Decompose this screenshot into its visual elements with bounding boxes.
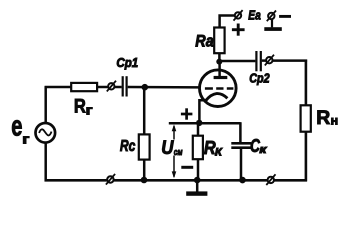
wire cathode rail	[169, 122, 241, 125]
resistor Rг	[71, 83, 97, 91]
wire cathode rail corner to Ck	[239, 122, 242, 143]
svg-text:г: г	[22, 131, 30, 146]
svg-text:U: U	[161, 137, 174, 159]
terminal Ea minus	[268, 13, 274, 19]
minus sign cathode	[181, 166, 193, 169]
plus sign cathode	[181, 113, 193, 116]
plus sign Ea	[232, 28, 245, 31]
triode cathode arc	[206, 94, 228, 101]
wire anode node to Cp2	[219, 60, 255, 63]
wire Ra top to Ea plus terminal	[220, 16, 235, 28]
triode U1 envelope	[200, 70, 237, 107]
terminal Ea plus	[235, 12, 241, 18]
terminal input bottom	[107, 176, 113, 182]
triode grid dashes	[205, 87, 213, 90]
node Rk bottom junction	[194, 177, 201, 184]
node anode junction	[216, 59, 222, 65]
node Ck bottom junction	[239, 177, 246, 184]
wire Ck bottom	[240, 148, 243, 181]
svg-text:Cp2: Cp2	[249, 71, 269, 86]
wire output top to right corner	[273, 59, 307, 62]
svg-text:Ea: Ea	[248, 8, 260, 23]
capacitor Cp1	[122, 76, 124, 96]
wire Ra bottom to anode node	[218, 53, 221, 64]
sine symbol inside eg	[39, 129, 51, 135]
wire right vertical bottom	[305, 132, 308, 182]
arrow Ucm measurement	[173, 126, 175, 139]
node Rc bottom junction	[141, 177, 148, 184]
svg-text:г: г	[86, 103, 93, 117]
svg-text:н: н	[331, 113, 339, 127]
minus sign Ea	[279, 15, 291, 18]
wire right vertical top	[305, 60, 308, 106]
resistor Rc	[139, 134, 150, 159]
generator eg	[36, 123, 56, 143]
wire input top rail	[45, 86, 72, 89]
svg-text:R: R	[74, 96, 86, 118]
terminal output top	[266, 57, 272, 63]
capacitor Ck	[231, 142, 251, 145]
wire grid node down to Rc	[143, 87, 146, 135]
resistor Ra	[214, 28, 224, 54]
terminal output bottom	[268, 177, 274, 183]
triode anode plate	[214, 76, 228, 79]
terminal input top	[108, 83, 114, 89]
svg-text:Cp1: Cp1	[116, 55, 138, 70]
wire generator bottom	[44, 142, 47, 181]
wire Rc to bottom rail	[143, 160, 146, 181]
svg-text:Ra: Ra	[195, 32, 213, 50]
resistor Rн	[301, 105, 311, 131]
triode anode lead	[218, 61, 221, 78]
wire Rk bottom	[197, 159, 200, 180]
triode cathode lead	[199, 100, 205, 123]
svg-text:R: R	[316, 108, 330, 129]
capacitor Cp2	[255, 51, 257, 71]
svg-text:e: e	[11, 110, 22, 142]
node grid junction	[142, 84, 149, 91]
wire bottom rail	[45, 179, 308, 182]
wire cathode node to Rk	[197, 123, 200, 136]
wire terminal to Cp1	[115, 86, 122, 89]
ground Ea minus	[271, 19, 273, 27]
svg-text:Rc: Rc	[120, 138, 136, 155]
wire left vertical (generator branch)	[44, 86, 47, 123]
node cathode junction	[196, 120, 202, 126]
resistor Rk	[193, 136, 203, 160]
wire Cp1 to grid	[128, 86, 200, 89]
wire Rг to input terminal	[97, 86, 108, 89]
ground main	[196, 180, 199, 191]
svg-text:см: см	[174, 147, 183, 158]
wire Cp2 to output terminal	[262, 59, 266, 62]
